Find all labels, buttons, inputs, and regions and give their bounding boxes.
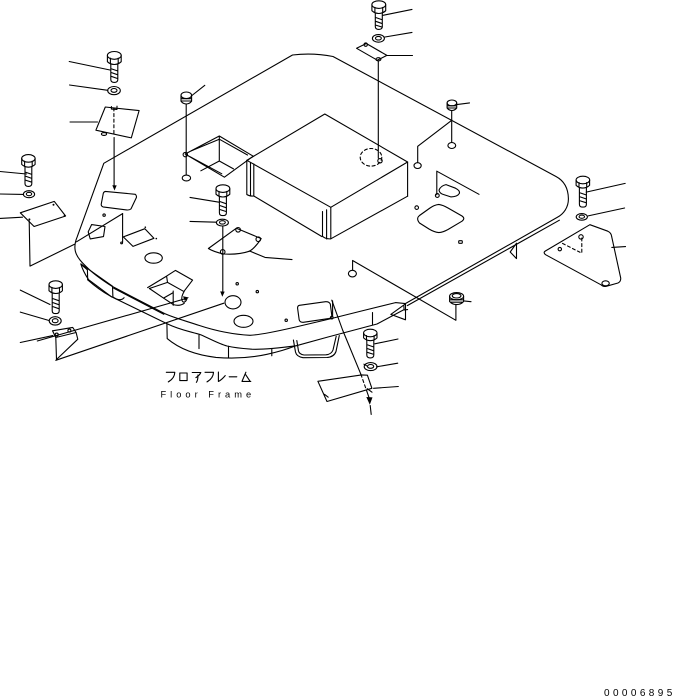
bolt B3 head <box>22 155 35 163</box>
plate P1 <box>96 106 139 138</box>
leader to B2 <box>383 9 412 15</box>
bolt B4 head <box>49 281 62 289</box>
leader to B6 <box>375 339 398 344</box>
washer W2 <box>372 35 384 43</box>
cap bolt C3 <box>450 293 464 300</box>
floor frame rim fold edge <box>88 280 404 349</box>
axis P1 to P3 <box>113 138 115 188</box>
bolt B7 shaft <box>579 188 586 207</box>
axis W5 to hole A <box>222 226 224 291</box>
inner rib edge <box>122 214 124 243</box>
svg-text:00006895: 00006895 <box>604 688 676 697</box>
plate D axis pin <box>332 301 334 316</box>
inner bracket right <box>437 171 479 197</box>
leader to W2 <box>385 32 412 37</box>
plate P7 <box>208 228 261 254</box>
plate P1 dashed axis <box>113 108 115 136</box>
small dot 3 <box>285 319 287 321</box>
plate P6 leaf <box>123 229 154 247</box>
pocket corner circle <box>183 152 187 156</box>
long arrow through P4 <box>332 300 361 374</box>
leader to B5 <box>190 197 219 202</box>
leader to B4 <box>20 290 50 304</box>
floor hole A <box>225 296 241 309</box>
washer W6 <box>364 363 377 371</box>
long leader to hole A <box>56 303 224 360</box>
rim inner pair line <box>114 288 164 314</box>
bolt B2 shaft <box>375 13 382 29</box>
bolt B2 head <box>372 1 386 9</box>
floor hole C <box>145 253 162 263</box>
angle bracket web <box>56 333 78 360</box>
axis P2 to box <box>377 61 379 158</box>
floor hole D <box>348 270 356 277</box>
rim tick 4 <box>372 313 374 325</box>
washer W7 <box>576 214 587 221</box>
plate P4 <box>318 375 372 402</box>
box front bottom edge <box>254 196 322 237</box>
leader to C2 <box>457 103 470 105</box>
pocket inner edges <box>190 136 247 174</box>
bolt B7 head <box>576 176 590 184</box>
small dot 9 <box>121 242 123 244</box>
front handle <box>293 336 339 358</box>
rim pennant rib 1 <box>391 304 406 320</box>
leader to P2 <box>387 55 412 57</box>
leader to W5 <box>190 220 216 223</box>
leader to W4 <box>20 312 49 320</box>
axis C2 to spacer <box>451 111 453 143</box>
leader to B1 <box>69 62 110 71</box>
small dot 7 <box>459 241 463 244</box>
rim tick 1 <box>198 335 200 348</box>
leader to W1 <box>70 85 108 90</box>
small dot 2 <box>256 290 258 292</box>
bolt B5 head <box>216 185 230 193</box>
washer W5 <box>216 219 228 226</box>
rim flange bottom edge <box>167 324 296 358</box>
left wall vertical edge <box>29 221 74 266</box>
arrow bracket pennant <box>164 291 174 305</box>
leader to B7 <box>586 183 625 192</box>
plate P3 <box>101 191 136 210</box>
leader to W3 <box>0 193 23 195</box>
floor frame main outline <box>75 54 569 335</box>
leader to C3 <box>464 300 471 303</box>
rim tick 3 <box>271 349 273 356</box>
rim tick 2 <box>228 346 230 357</box>
arrow bracket flange <box>148 270 193 291</box>
box top dashed ellipse <box>360 149 382 167</box>
left bent plate flange <box>20 201 65 226</box>
bolt B1 shaft <box>111 64 118 82</box>
rim corner inner curve <box>81 265 88 280</box>
pocket recess outer rim <box>185 136 253 177</box>
svg-text:Floor Frame: Floor Frame <box>161 389 256 399</box>
floor hole B <box>234 315 253 327</box>
leader to B3 <box>0 172 27 175</box>
plate D rounded <box>298 302 332 323</box>
leader from P7 <box>249 251 292 260</box>
long leader to arrow bracket <box>37 298 186 341</box>
leader to W6 <box>377 363 398 367</box>
box on floor: top face <box>247 114 408 207</box>
small dot 1 <box>236 283 238 285</box>
C3 bend line to hole D <box>353 261 456 321</box>
bolt B1 head <box>107 52 121 60</box>
bolt B5 shaft <box>219 197 226 216</box>
rim pennant rib 2 <box>510 243 516 258</box>
rim edge pair right <box>404 220 560 310</box>
box right corner strip <box>323 207 331 239</box>
arrow bracket swoosh <box>173 291 187 305</box>
inner bracket circle <box>435 194 439 198</box>
axis C1 to foot <box>185 104 187 174</box>
washer W1 <box>108 87 121 95</box>
small dot 8 <box>103 214 105 216</box>
leader to P1 <box>70 121 98 123</box>
washer W3 <box>23 191 34 198</box>
leader to P4 <box>374 387 399 389</box>
leader to triangular plate <box>612 246 626 249</box>
bolt B6 head <box>364 329 377 337</box>
triangular plate <box>544 225 621 287</box>
angle bracket flange <box>53 327 77 337</box>
washer W4 <box>49 317 61 325</box>
bolt B3 shaft <box>25 167 32 186</box>
leader to W7 <box>588 208 624 216</box>
box bottom right edge <box>331 196 408 239</box>
label Japanese floor frame <box>166 372 251 382</box>
C2 bend line to hole E <box>418 120 452 162</box>
leader to C1 <box>191 85 205 96</box>
bolt B6 shaft <box>367 341 374 358</box>
big rounded square hole <box>418 204 464 232</box>
cap bolt C1 <box>181 92 192 99</box>
floor hole E <box>414 163 421 169</box>
arrow bracket bottom edge <box>149 289 163 299</box>
leader to left plate <box>0 217 23 218</box>
box right edge <box>407 162 409 196</box>
small dot 6 <box>415 206 419 210</box>
cap bolt C2 <box>447 100 457 106</box>
C2 spacer ellipse <box>448 143 456 149</box>
plate P5 <box>88 225 105 239</box>
box left corner strip <box>247 160 254 196</box>
plate P2 <box>357 44 387 61</box>
bolt B4 shaft <box>52 293 59 313</box>
C1 foot ellipse <box>182 175 190 181</box>
inner floor left edge <box>77 214 123 242</box>
rib bracket left <box>81 264 124 300</box>
box top small circle <box>378 159 382 163</box>
leader to angle bracket <box>20 336 53 343</box>
